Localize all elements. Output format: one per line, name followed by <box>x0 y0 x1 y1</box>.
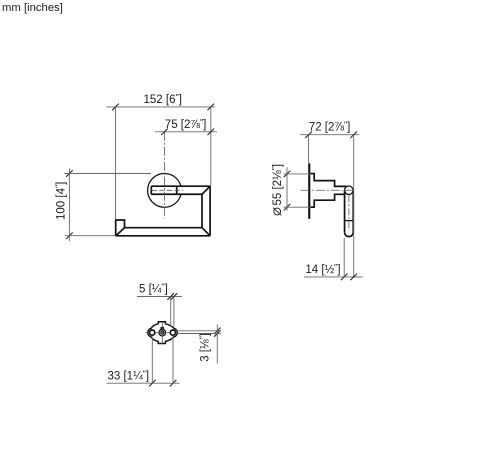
dim 72 ext left <box>308 135 310 163</box>
dim 33 ext right <box>172 336 174 383</box>
rosette profile upper <box>310 174 346 187</box>
dim 75 tick left <box>161 129 168 136</box>
dim 152 ext left <box>115 107 117 220</box>
dim 75 line <box>155 131 217 133</box>
side view horizontal centerline <box>301 189 343 191</box>
svg-text:mm [inches]: mm [inches] <box>2 2 63 14</box>
dim 100 line <box>68 168 70 241</box>
dim 14 ext left <box>343 238 345 277</box>
pivot centerline tick <box>344 189 355 191</box>
dim 100 ext top <box>65 173 152 175</box>
dim 72 tick left <box>305 131 312 138</box>
dim 152 line <box>106 106 215 108</box>
dim 152/75 ext right <box>210 107 212 186</box>
dim 5 tick right <box>171 293 178 300</box>
pivot circle <box>345 186 354 195</box>
dim 3 line <box>216 324 218 363</box>
dim 14 tick right <box>350 274 357 281</box>
dim diameter55 line <box>286 167 288 211</box>
spindle/arm joint <box>176 186 178 194</box>
bottom bar inner edge <box>125 227 203 229</box>
rosette profile lower <box>310 194 345 207</box>
left screw hole ticks <box>145 332 158 334</box>
dim 55 tick top <box>284 171 291 178</box>
bevel bottom-right <box>202 228 210 236</box>
dim 100 ext bottom <box>65 235 116 237</box>
dim 14 tick left <box>341 274 348 281</box>
dim 55 text (rotated) with diameter symbol <box>270 164 284 215</box>
bracket outline <box>148 322 178 344</box>
dim 152 tick left <box>112 104 119 111</box>
bar left edge <box>344 191 346 233</box>
dim 72 tick right <box>350 131 357 138</box>
center boss inner circle <box>161 331 164 334</box>
dim 55 ext bottom <box>284 206 312 208</box>
dim 5 line <box>137 296 182 298</box>
hook at left end <box>116 220 125 236</box>
dim 33 tick left <box>149 380 156 387</box>
spindle left edge <box>150 186 152 194</box>
bottom bar outer edge <box>116 235 210 237</box>
dim 3 ext top <box>176 330 221 332</box>
dim 55 ext top <box>284 173 312 175</box>
dim 72/14 ext right <box>353 135 355 277</box>
bar right edge <box>352 191 354 233</box>
dim 3 tick top <box>214 328 221 335</box>
arm bottom edge <box>177 193 202 195</box>
bevel top-right <box>202 186 210 194</box>
dim 75 tick right <box>208 129 215 136</box>
spindle + arm top edge <box>151 185 210 187</box>
dim 14 line <box>304 276 363 278</box>
dim 5 tick left <box>167 293 174 300</box>
dim 33 tick right <box>170 380 177 387</box>
bar bottom rounded cap <box>345 232 354 236</box>
right screw hole <box>170 330 175 335</box>
left screw hole <box>150 330 155 335</box>
bar centerline <box>348 195 350 231</box>
dim 72 line <box>300 134 359 136</box>
right screw hole tick <box>167 332 170 334</box>
dim 33 line <box>107 382 180 384</box>
spindle bottom edge <box>151 193 176 195</box>
wall plate <box>308 163 310 219</box>
center boss crosshair <box>158 328 167 337</box>
right inner edge <box>201 194 203 227</box>
rosette circle (arc with gap where arm crosses) <box>148 173 181 207</box>
dim 100 tick top <box>66 170 73 177</box>
bracket vertical centerline <box>161 321 163 343</box>
dim 5 ext right <box>173 297 175 327</box>
dim 33 ext left <box>151 336 153 383</box>
dim 5 ext left <box>170 297 172 327</box>
hook bevel <box>116 228 125 236</box>
dim 3 ext bottom <box>176 333 221 335</box>
black square stud <box>161 327 165 330</box>
vertical centerline through rosette <box>164 132 166 219</box>
right outer edge <box>209 186 211 236</box>
bar joint line <box>345 220 354 222</box>
dim 3 tick bottom <box>214 330 221 337</box>
dim 55 tick bottom <box>284 204 291 211</box>
dim 100 tick bottom <box>66 232 73 239</box>
hidden centerline in spindle <box>152 189 183 191</box>
dim 152 tick right <box>208 104 215 111</box>
center boss outer circle <box>159 329 166 336</box>
